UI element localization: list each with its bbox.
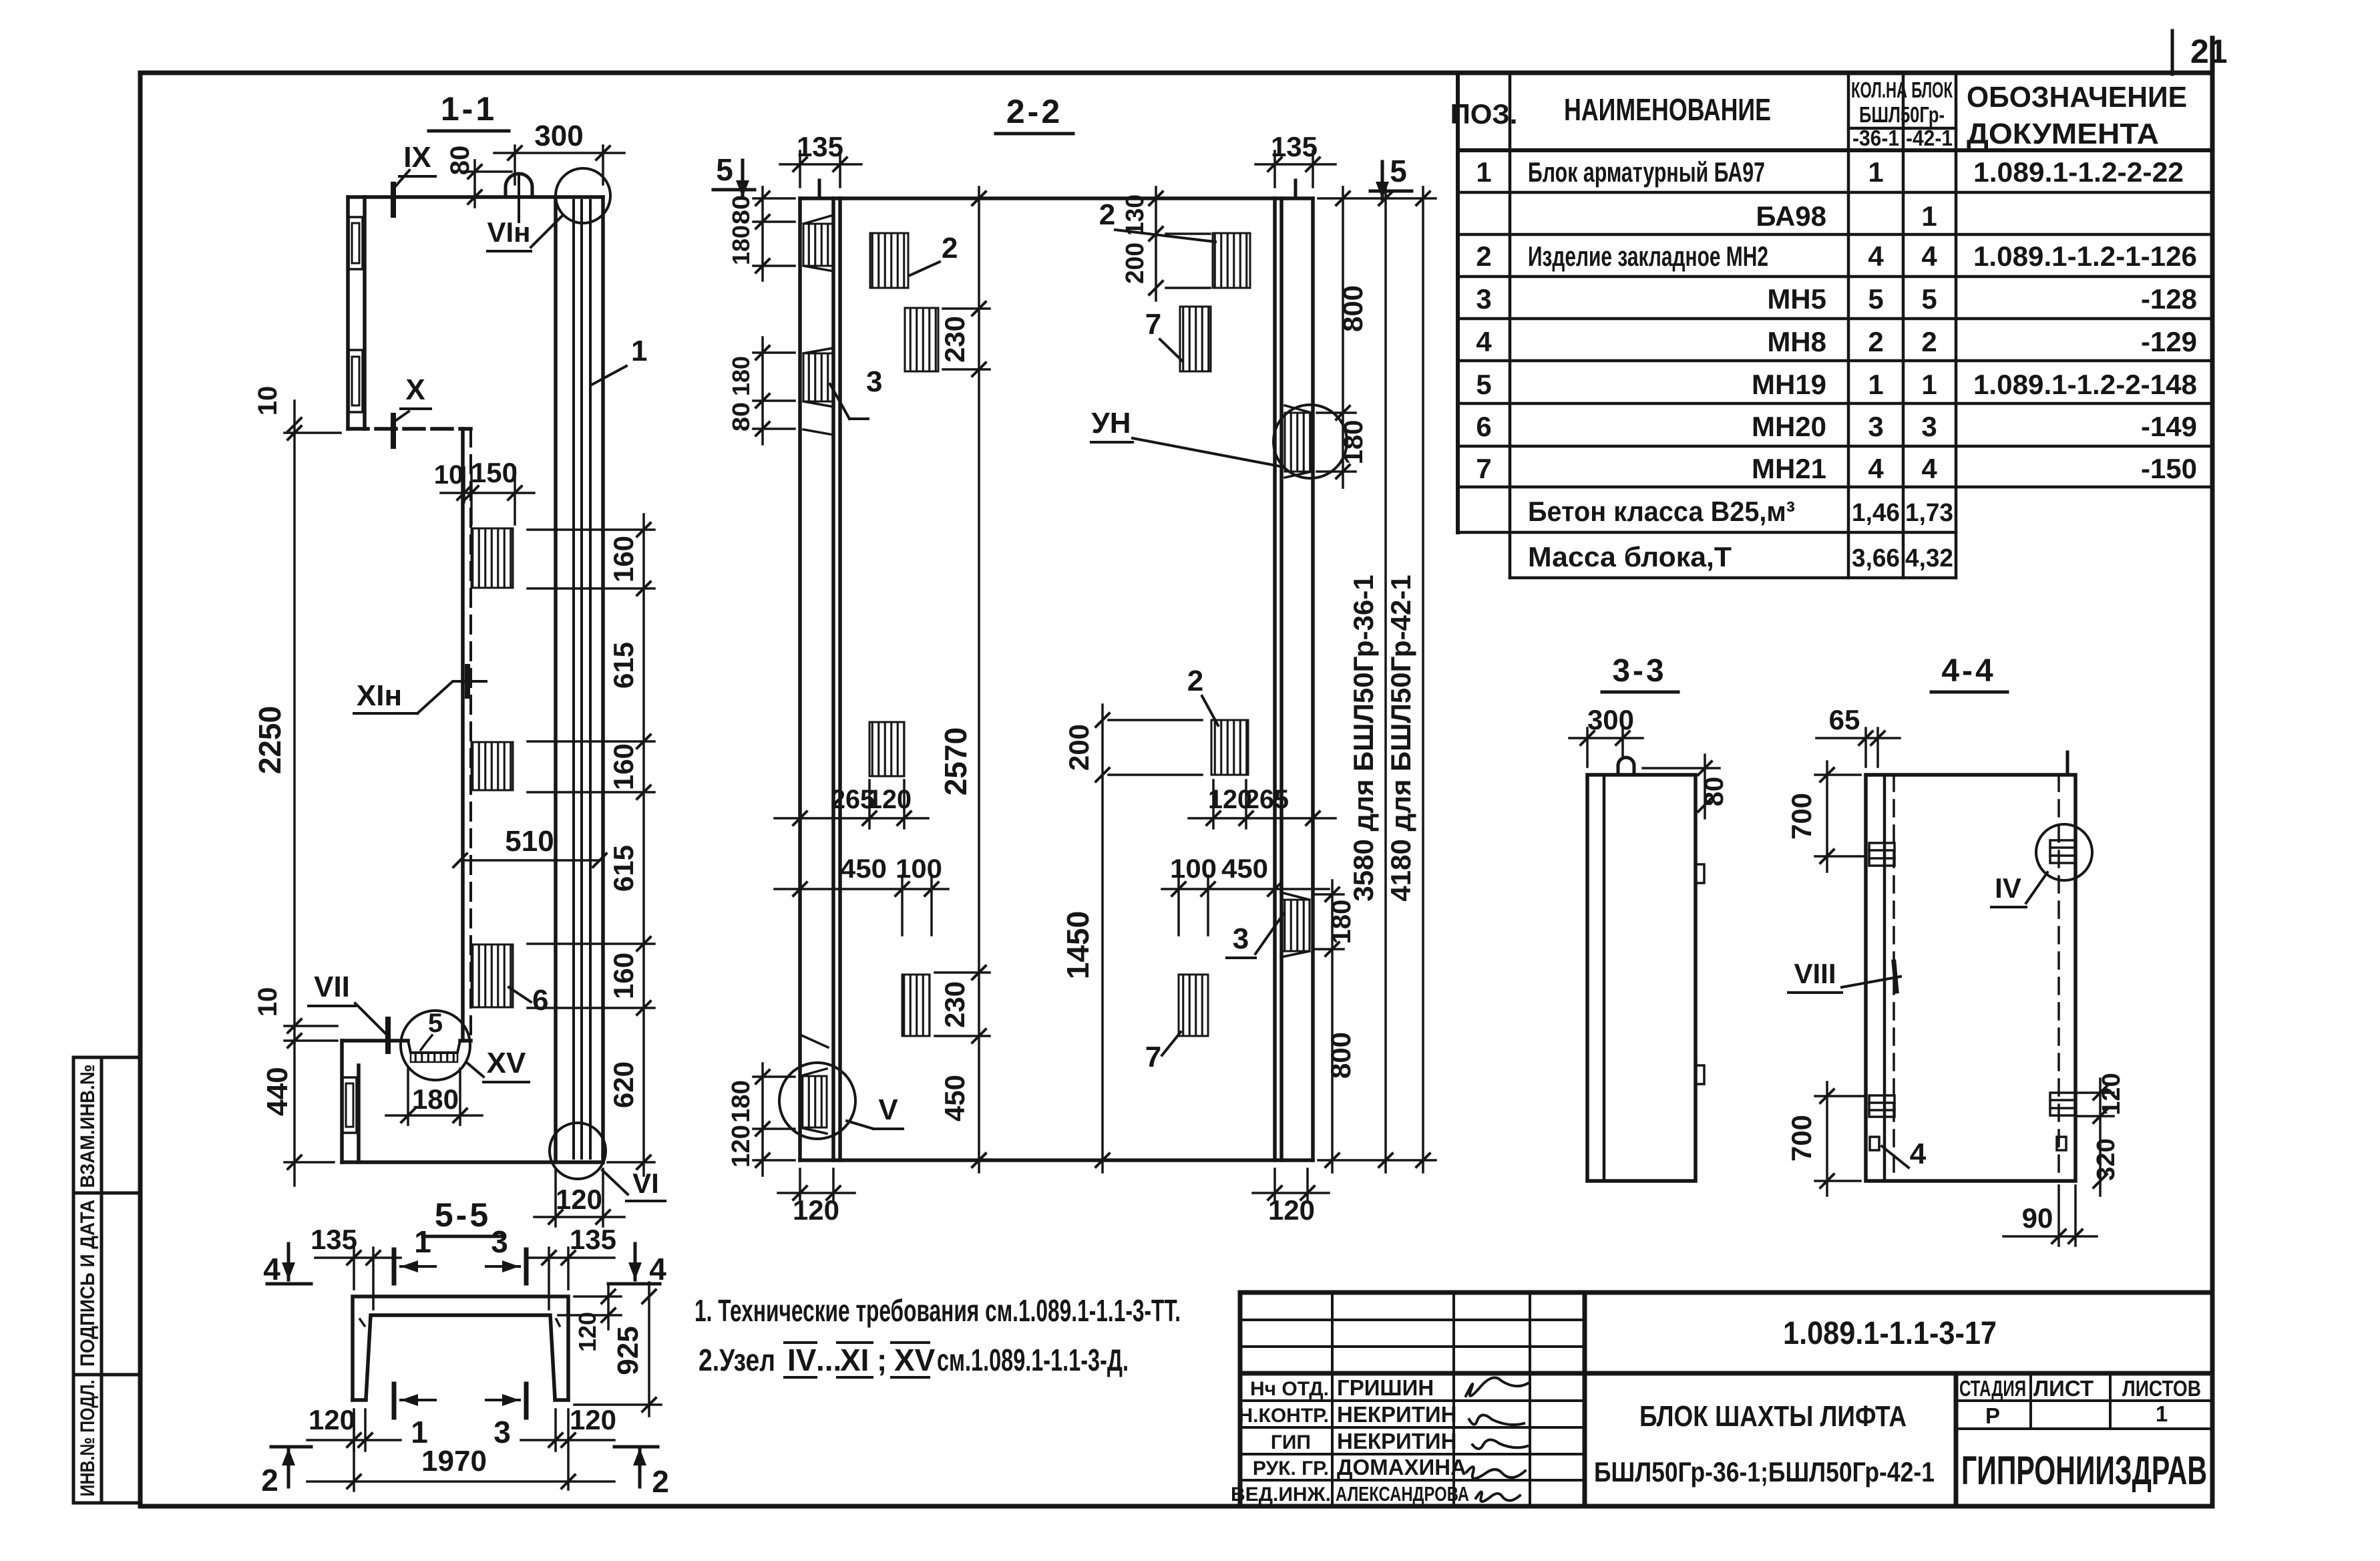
svg-text:ДОКУМЕНТА: ДОКУМЕНТА [1967,118,2159,150]
svg-text:3: 3 [1476,283,1491,315]
svg-text:200: 200 [1121,242,1149,284]
svg-text:1450: 1450 [1060,911,1095,979]
svg-text:230: 230 [939,981,970,1028]
svg-text:БЛОК ШАХТЫ ЛИФТА: БЛОК ШАХТЫ ЛИФТА [1639,1400,1907,1433]
dim 120 bottom-left [307,1409,401,1451]
svg-text:1.089.1-1.2-2-148: 1.089.1-1.2-2-148 [1973,369,2197,400]
svg-text:80: 80 [727,195,755,224]
svg-text:XI: XI [840,1343,869,1377]
dim 120 265 right [1189,780,1336,828]
svg-text:ГИПРОНИИЗДРАВ: ГИПРОНИИЗДРАВ [1961,1448,2207,1493]
svg-text:МН5: МН5 [1767,283,1826,315]
lower-right free embed МН2 (item 2) [1211,720,1248,775]
free embed МН21 right (item 7) [1180,307,1211,371]
left wall panel [800,198,840,1160]
svg-text:7: 7 [1476,453,1491,484]
svg-text:2: 2 [1187,665,1203,697]
svg-text:620: 620 [608,1061,639,1108]
U channel outline [353,1296,568,1400]
svg-text:1,46: 1,46 [1852,499,1900,527]
left bottom dim chain 180/120 [753,1063,795,1176]
svg-text:4: 4 [649,1252,666,1286]
dim 700 lower-left [1815,1082,1863,1196]
signatures [1466,1378,1528,1502]
dim 130 200 right upper [1156,187,1210,301]
svg-text:7: 7 [1145,1041,1161,1073]
node XV notch with hatch [408,1041,460,1053]
left wall anchor tick [818,180,821,198]
svg-text:ИНВ.№ ПОДЛ.: ИНВ.№ ПОДЛ. [77,1380,99,1497]
svg-text:4: 4 [263,1252,280,1286]
dim 230 upper (on 2570 chain) [943,309,990,369]
svg-text:1. Технические требования см.1: 1. Технические требования см.1.089.1-1.1… [695,1293,1181,1328]
free embed МН2 upper-right (item 2) [1213,233,1250,288]
svg-text:160: 160 [608,536,639,582]
dim 10 150 at dashed face [441,468,534,524]
svg-text:5-5: 5-5 [435,1196,491,1234]
free embed МН2 upper-left (item 2) [870,233,908,288]
svg-text:ДОМАХИНА: ДОМАХИНА [1337,1455,1466,1480]
svg-text:МН21: МН21 [1752,453,1826,484]
dim 135 top-left wall [780,151,861,187]
svg-text:180: 180 [727,225,755,265]
svg-text:XV: XV [894,1343,936,1377]
dim 510 [460,859,600,862]
svg-text:3: 3 [1233,922,1249,955]
right wall panel [1275,198,1313,1160]
svg-text:2: 2 [1099,198,1115,231]
dim 80 top-right [1643,755,1720,818]
svg-text:265: 265 [1245,785,1289,814]
svg-text:7: 7 [1145,308,1161,341]
svg-text:5: 5 [1390,154,1407,188]
svg-text:-129: -129 [2141,326,2197,357]
svg-text:4-4: 4-4 [1941,653,1995,689]
dim 450 100 left [775,876,948,935]
dim 135 top-right [528,1248,614,1309]
svg-text:120: 120 [574,1312,601,1352]
svg-text:3580 для БШЛ50Гр-36-1: 3580 для БШЛ50Гр-36-1 [1348,574,1379,901]
svg-text:;: ; [877,1343,887,1377]
dim 3580 full height [1384,187,1387,1172]
dim 120 flange right [558,1284,621,1329]
svg-text:700: 700 [1786,793,1817,840]
svg-text:-149: -149 [2141,411,2197,442]
top edge of back wall [840,196,1275,200]
svg-text:120: 120 [867,785,912,814]
svg-text:120: 120 [727,1125,755,1168]
svg-text:4: 4 [1921,453,1937,484]
notes [695,1293,1181,1377]
svg-text:5: 5 [1921,283,1937,315]
embed plate top-left wall upper [349,217,363,269]
svg-text:4: 4 [1868,240,1884,272]
svg-text:120: 120 [570,1404,616,1435]
guide rail lines item 1 [574,200,590,1158]
lifting loop [1618,757,1634,775]
svg-text:ЛИСТОВ: ЛИСТОВ [2122,1376,2201,1401]
svg-text:3: 3 [1921,411,1937,442]
svg-text:УН: УН [1091,407,1131,440]
svg-text:1: 1 [2156,1401,2168,1426]
svg-text:ВЕД.ИНЖ.: ВЕД.ИНЖ. [1231,1484,1331,1506]
svg-text:5: 5 [1868,283,1883,315]
wall outline top [348,197,603,1041]
dim 120 bottom-right [1253,1169,1329,1202]
svg-text:80: 80 [445,146,475,176]
svg-text:2250: 2250 [252,706,287,774]
svg-text:320: 320 [2092,1138,2120,1180]
svg-text:510: 510 [505,825,554,858]
svg-text:2: 2 [1921,326,1937,357]
svg-text:5: 5 [1476,369,1491,400]
svg-text:4180 для БШЛ50Гр-42-1: 4180 для БШЛ50Гр-42-1 [1385,574,1416,901]
svg-text:180: 180 [727,1080,755,1123]
lower-left free embed МН2 [869,722,904,776]
svg-text:VIн: VIн [487,216,530,248]
svg-text:1: 1 [1868,156,1883,188]
left dim chain 80/180 [753,187,795,444]
svg-text:3: 3 [493,1415,511,1449]
svg-text:1: 1 [1921,200,1937,232]
node IV circle [2036,824,2092,880]
dim 2250 left [284,401,341,1186]
svg-text:160: 160 [608,743,639,790]
svg-text:Нч ОТД.: Нч ОТД. [1250,1378,1329,1400]
embed plate on dashed face 2 [471,742,513,790]
svg-text:1.089.1-1.1-3-17: 1.089.1-1.1-3-17 [1783,1316,1997,1351]
svg-text:800: 800 [1337,285,1368,332]
svg-text:1: 1 [1921,369,1937,400]
dim 120 bottom-right [521,1409,614,1490]
node circle VIн top [556,168,610,223]
svg-text:2: 2 [261,1463,278,1498]
svg-text:-36-1: -36-1 [1852,126,1899,150]
svg-text:2-2: 2-2 [1006,93,1062,130]
svg-text:300: 300 [534,120,583,152]
svg-text:Бетон класса В25,м³: Бетон класса В25,м³ [1528,496,1795,527]
free embed below (МН21) [905,308,938,371]
svg-text:3: 3 [866,365,882,398]
dim 80 hook height [467,160,512,207]
svg-text:V: V [878,1093,898,1126]
edge plate lower [1696,1065,1704,1084]
svg-text:1: 1 [1476,156,1491,188]
svg-text:120: 120 [1268,1194,1315,1226]
lower-right free embed МН21 (item 7) [1179,975,1208,1036]
dim 10 top-left [288,418,301,431]
edge plate upper [1696,864,1704,883]
node reference overlines and underlines [785,1341,816,1344]
svg-text:2: 2 [1868,326,1883,357]
dim 925 right [648,1282,650,1416]
svg-text:БШЛ50Гр-: БШЛ50Гр- [1859,102,1945,127]
svg-text:XIн: XIн [357,679,402,712]
svg-text:180: 180 [1327,900,1356,944]
small embed item 4 left [1870,1137,1879,1150]
table grid [1458,73,2212,532]
svg-text:Н.КОНТР.: Н.КОНТР. [1239,1405,1329,1427]
svg-text:ПОДПИСЬ И ДАТА: ПОДПИСЬ И ДАТА [77,1200,99,1367]
svg-text:615: 615 [608,845,639,892]
svg-text:6: 6 [532,984,548,1017]
svg-text:Изделие закладное МН2: Изделие закладное МН2 [1528,240,1768,272]
dim 2570 [978,187,980,1172]
svg-text:ГРИШИН: ГРИШИН [1337,1375,1434,1400]
svg-text:1.089.1-1.2-1-126: 1.089.1-1.2-1-126 [1973,240,2197,272]
node XV circle [401,1011,470,1080]
sheet number tab tick [2171,31,2174,74]
dim 300 top [1569,728,1643,767]
svg-text:65: 65 [1829,704,1860,735]
svg-text:КОЛ.НА БЛОК: КОЛ.НА БЛОК [1851,77,1953,102]
svg-text:2570: 2570 [938,727,973,796]
svg-text:5: 5 [716,152,733,187]
embed plate on dashed face 3 (item 6) [471,944,513,1007]
svg-text:IV: IV [787,1343,817,1377]
svg-text:3: 3 [1868,411,1883,442]
svg-text:НАИМЕНОВАНИЕ: НАИМЕНОВАНИЕ [1564,92,1771,127]
svg-text:180: 180 [412,1083,459,1115]
svg-text:120: 120 [556,1184,602,1215]
embed on right wall lower (item 3) [1281,900,1310,951]
svg-text:700: 700 [1786,1115,1817,1162]
svg-text:X: X [405,373,425,406]
svg-text:МН20: МН20 [1752,411,1826,442]
svg-text:10: 10 [253,987,282,1017]
svg-text:1.089.1-1.2-2-22: 1.089.1-1.2-2-22 [1973,156,2184,188]
panel outline [1587,775,1696,1181]
svg-text:1-1: 1-1 [441,90,497,128]
svg-text:IX: IX [403,141,431,174]
parts table [1450,73,2212,578]
svg-text:150: 150 [471,457,518,488]
panel outline [1866,775,2075,1181]
dim 265 120 left [775,780,928,828]
svg-text:VII: VII [314,971,350,1003]
svg-text:-150: -150 [2141,453,2197,484]
svg-text:Р: Р [1985,1403,2000,1428]
svg-text:135: 135 [570,1224,616,1255]
svg-text:135: 135 [797,131,843,162]
svg-text:БШЛ50Гр-36-1;БШЛ50Гр-42-1: БШЛ50Гр-36-1;БШЛ50Гр-42-1 [1594,1456,1935,1488]
svg-text:2: 2 [942,232,958,265]
svg-text:ГИП: ГИП [1271,1431,1311,1453]
svg-text:10: 10 [434,460,464,490]
svg-text:10: 10 [253,386,282,416]
dashed line left [1893,775,1895,1181]
embed plate top-left wall lower [349,350,363,412]
node circle VI bottom [550,1123,606,1179]
right dimension chain 160/615/160/615/160/620 [528,514,654,1176]
svg-text:120: 120 [309,1404,355,1435]
svg-text:4: 4 [1921,240,1937,272]
svg-text:РУК. ГР.: РУК. ГР. [1253,1457,1329,1480]
svg-text:1970: 1970 [421,1445,487,1478]
svg-text:300: 300 [1587,704,1634,735]
svg-text:XV: XV [487,1047,526,1079]
svg-text:100: 100 [1170,854,1217,884]
embed МН5 left wall second (item 3) [803,353,833,401]
svg-text:120: 120 [793,1194,839,1226]
svg-text:Масса блока,Т: Масса блока,Т [1528,541,1732,572]
svg-text:800: 800 [1325,1032,1356,1079]
dim 300 top [494,146,624,184]
svg-text:ОБОЗНАЧЕНИЕ: ОБОЗНАЧЕНИЕ [1967,81,2187,114]
dim chain 180/800 right lower [1314,880,1344,1172]
svg-text:IV: IV [1995,872,2021,904]
dim 180 under notch [386,1069,482,1125]
dim 135 top-right wall [1255,151,1336,187]
svg-text:Блок арматурный БА97: Блок арматурный БА97 [1528,156,1765,188]
embed square upper-left [1869,843,1895,866]
svg-text:90: 90 [2022,1202,2053,1234]
svg-text:925: 925 [612,1326,644,1375]
svg-text:1: 1 [631,335,647,367]
svg-text:МН19: МН19 [1752,369,1826,400]
svg-text:4: 4 [1868,453,1884,484]
wall dashed face line XIн [469,429,472,1041]
svg-text:80: 80 [727,402,755,431]
svg-text:4,32: 4,32 [1905,544,1953,572]
title block [1231,1292,2212,1506]
svg-text:230: 230 [939,316,970,363]
svg-text:НЕКРИТИН: НЕКРИТИН [1337,1402,1456,1427]
svg-text:VI: VI [632,1168,659,1199]
svg-text:135: 135 [1271,131,1318,162]
embed square lower-right [2050,1093,2075,1115]
embed square upper-right in node IV [2050,840,2075,863]
dim 90 bottom [2003,1186,2097,1246]
right wall anchor tick [1294,180,1298,198]
svg-text:100: 100 [896,854,942,884]
svg-text:-42-1: -42-1 [1906,126,1953,150]
embed plate on dashed face 1 [471,528,513,588]
svg-text:МН8: МН8 [1767,326,1826,357]
embed in node УН right wall [1285,413,1312,472]
svg-text:6: 6 [1476,411,1491,442]
svg-text:4: 4 [1476,326,1492,357]
right back wall [342,197,603,1162]
small embed lower-right [2057,1137,2066,1150]
svg-text:ВЗАМ.ИНВ.№: ВЗАМ.ИНВ.№ [77,1065,99,1188]
svg-text:VIII: VIII [1794,958,1836,989]
svg-text:2: 2 [652,1464,669,1499]
svg-text:450: 450 [840,854,887,884]
svg-text:...: ... [816,1343,841,1377]
dim 65 top [1816,728,1900,767]
node V circle [779,1063,855,1139]
dim 1450 and 200 middle [1103,705,1202,1172]
svg-text:135: 135 [311,1224,357,1255]
svg-text:3,66: 3,66 [1852,544,1900,572]
dim 120/320 right [2078,1079,2114,1196]
embed plate bottom-left wall [343,1077,357,1133]
dim chain 800/180 right upper [1317,187,1356,488]
node УН circle [1273,405,1347,478]
embed square lower-left [1869,1095,1895,1117]
svg-text:2.Узел: 2.Узел [699,1343,775,1377]
svg-text:21: 21 [2190,33,2228,70]
rebar tick marks [360,1319,365,1326]
svg-text:НЕКРИТИН: НЕКРИТИН [1337,1429,1456,1453]
dim 120 bottom [534,1169,624,1226]
svg-text:615: 615 [608,642,639,689]
svg-text:450: 450 [1221,854,1268,884]
svg-text:ЛИСТ: ЛИСТ [2033,1376,2094,1401]
svg-text:АЛЕКСАНДРОВА: АЛЕКСАНДРОВА [1336,1482,1469,1506]
lower-left free embed МН21 [902,975,930,1036]
svg-text:5: 5 [428,1009,443,1038]
dim 230 lower / 450 lower (on 2570 chain) [935,973,990,1036]
dim 100 450 right [1162,876,1329,935]
anchor tick top [2066,752,2069,775]
svg-text:120: 120 [2098,1073,2126,1115]
svg-text:440: 440 [261,1067,294,1115]
svg-text:1,73: 1,73 [1905,499,1953,527]
svg-text:ПОЗ.: ПОЗ. [1450,98,1518,130]
dim 120 bottom-left [778,1169,855,1202]
lifting hook [506,174,532,197]
svg-text:130: 130 [1121,194,1149,236]
svg-text:200: 200 [1063,724,1095,771]
svg-text:4: 4 [1910,1138,1927,1170]
dashed line right [2057,775,2060,1181]
top extension line to 3580/4180 [1318,197,1436,200]
left sidebar stamp boxes [73,1057,140,1503]
svg-text:СТАДИЯ: СТАДИЯ [1959,1376,2026,1401]
dim 1970 bottom [353,1413,355,1491]
svg-text:см.1.089.1-1.1-3-Д.: см.1.089.1-1.1-3-Д. [937,1343,1129,1377]
svg-text:-128: -128 [2141,283,2197,315]
svg-text:160: 160 [608,952,639,999]
dim 10 bottom-left [284,1026,337,1041]
bottom edge of back wall [800,1158,1313,1162]
bottom-left wall [342,1041,471,1162]
svg-text:3-3: 3-3 [1612,653,1666,689]
svg-text:180: 180 [1339,420,1368,465]
embed left wall bottom in node V [800,1076,827,1128]
svg-text:1: 1 [414,1224,431,1259]
svg-text:450: 450 [939,1075,970,1121]
dim 700 upper-left [1815,761,1863,872]
svg-text:БА98: БА98 [1756,200,1826,232]
svg-text:2: 2 [1476,240,1491,272]
svg-text:3: 3 [491,1224,508,1259]
dim 135 top-left [315,1248,401,1309]
svg-text:1: 1 [1868,369,1883,400]
dim 4180 full height [1422,187,1424,1172]
svg-text:80: 80 [1700,777,1729,807]
embed МН5 left wall upper [803,224,833,266]
svg-text:180: 180 [727,356,755,396]
